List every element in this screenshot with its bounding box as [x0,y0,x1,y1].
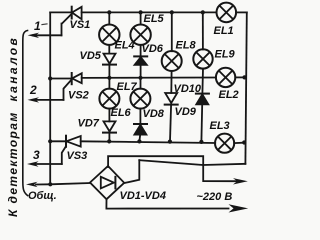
wire VD6 to mid bus [140,65,142,78]
node mid bus left rail [48,76,52,80]
arrow mains upper terminal [233,178,248,184]
wire right rail [245,12,246,163]
svg-text:VS3: VS3 [67,150,88,162]
node common left rail [48,182,52,186]
bridge rectifier VD1-VD4 [90,166,124,199]
diode VD9 [165,93,178,105]
svg-text:VD5: VD5 [80,50,102,62]
node top bus EL9 column [201,10,205,14]
wire channel 2 with arrow [33,99,64,101]
diode VD5 [103,54,116,65]
wire EL9 to VD10 (crosses mid bus) [201,69,204,94]
svg-text:3: 3 [33,148,40,162]
svg-text:~220 В: ~220 В [197,191,233,203]
node EL2 right rail [242,75,246,79]
node top bus EL8 column [170,10,174,14]
svg-text:EL2: EL2 [219,89,239,101]
wire EL4 column top [108,12,110,24]
wire EL5 column top [140,12,142,24]
lamp EL6 [99,89,119,109]
wire top bus left segment [50,11,71,13]
wire EL3 to right rail [234,142,245,145]
node mid bus EL7 column [138,76,142,80]
svg-text:EL8: EL8 [176,40,197,52]
wire riser to bridge right corner [124,160,139,183]
wire EL7 to VD8 [139,109,141,124]
wire EL5 to VD6 [140,45,142,56]
wire EL9 column top [202,12,204,49]
wire EL8 to VD9 (crosses mid bus) [170,71,172,93]
lamp EL9 [193,49,212,68]
node third bus VD7 column [107,139,111,143]
diode VD10 [196,94,209,105]
wire bridge top riser and AC line [108,156,236,181]
svg-text:К детекторам: К детекторам [6,111,20,217]
wire EL4 to VD5 [108,45,110,54]
wire bridge bottom to mains lower [106,199,228,208]
svg-text:EL9: EL9 [215,49,236,61]
lamp EL3 [215,134,234,153]
lamp EL7 [130,89,150,109]
lamp EL2 [216,68,235,87]
wire EL7 column top [140,78,142,89]
wire channel 1 with arrow [33,34,62,36]
svg-text:VD1-VD4: VD1-VD4 [120,190,166,202]
diode VD8 [134,124,147,135]
wire third bus left segment [50,140,66,142]
svg-text:Общ.: Общ. [28,190,57,202]
svg-text:2: 2 [29,83,37,97]
wire EL2 to right rail [235,76,246,78]
node third bus VD10 column [199,140,203,144]
svg-text:EL3: EL3 [210,120,230,132]
wire mid bus left segment [50,78,71,80]
svg-text:EL5: EL5 [144,13,165,25]
svg-text:VS2: VS2 [68,90,89,102]
svg-text:VD7: VD7 [78,118,100,130]
wire common (obshch) [36,183,90,185]
wire VD5 to mid bus [108,65,110,78]
svg-text:каналов: каналов [6,36,20,102]
svg-text:VD10: VD10 [174,83,202,95]
wire mid bus main [82,77,216,79]
wire VD8 to third bus [138,135,141,142]
lamp EL8 [162,51,182,71]
wire EL8 column top [171,12,173,51]
diode VD7 [103,121,116,132]
wire EL6 column top [108,78,110,89]
wire EL6 to VD7 [108,109,110,122]
node third bus VD9 column [168,140,172,144]
svg-text:VD9: VD9 [175,106,197,118]
thyristor VS3 [62,136,81,164]
lamp EL1 [217,3,237,23]
node third bus VD8 column [137,139,141,143]
thyristor VS1 [62,7,82,36]
node mid bus EL6 column [107,76,111,80]
svg-text:VD8: VD8 [143,108,165,120]
lamp EL5 [130,25,150,45]
svg-text:VD6: VD6 [142,43,164,55]
svg-text:VS1: VS1 [70,19,91,31]
wire third bus main [81,141,216,143]
wire VD10 to third bus [200,104,203,141]
node EL3 right rail [242,140,246,144]
wire VD9 to third bus [170,105,171,142]
wire VD7 to third bus [108,133,110,142]
lamp EL4 [99,25,119,45]
wire channel 3 with arrow [33,163,62,165]
wire top bus main [82,11,217,13]
wire lamp common return (lower right horizontal) [139,160,245,165]
svg-text:EL1: EL1 [214,25,234,37]
svg-text:1: 1 [34,19,41,33]
node top bus EL5 column [139,10,143,14]
wire left rail [49,12,51,184]
wire top bus to right rail [236,11,247,13]
arrow common terminal [26,182,38,187]
node third bus left rail [48,139,52,143]
node top bus EL4 column [107,10,111,14]
diode VD6 [134,56,147,65]
svg-text:EL6: EL6 [111,107,132,119]
bracket channels group [23,31,28,196]
thyristor VS2 [64,73,82,100]
arrow mains lower terminal [229,204,249,212]
